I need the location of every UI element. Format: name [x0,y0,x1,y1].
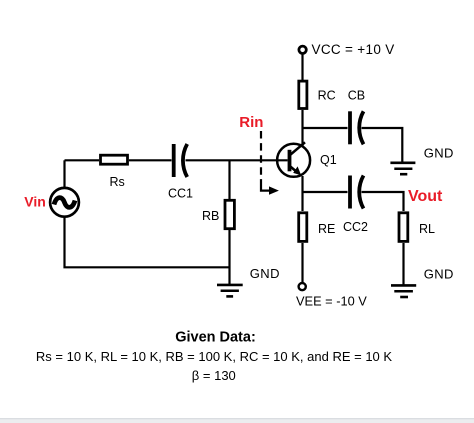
svg-text:RE: RE [318,222,335,236]
svg-text:VEE = -10 V: VEE = -10 V [296,293,367,308]
svg-text:CC2: CC2 [343,220,368,234]
svg-text:Vout: Vout [408,188,443,205]
svg-text:Rs = 10 K, RL = 10 K, RB = 100: Rs = 10 K, RL = 10 K, RB = 100 K, RC = 1… [36,349,392,364]
svg-text:CC1: CC1 [168,187,193,201]
svg-text:β = 130: β = 130 [192,368,236,383]
svg-text:GND: GND [424,146,454,161]
svg-text:Q1: Q1 [320,153,337,167]
svg-text:Vin: Vin [24,193,46,209]
svg-text:RL: RL [419,222,435,236]
svg-text:Rin: Rin [239,114,263,131]
svg-text:VCC = +10 V: VCC = +10 V [312,42,395,57]
svg-text:GND: GND [424,267,454,282]
svg-text:CB: CB [348,89,365,103]
svg-text:Given Data:: Given Data: [175,330,256,346]
svg-text:Rs: Rs [110,175,125,189]
svg-text:RC: RC [318,89,336,103]
svg-text:RB: RB [202,209,219,223]
svg-text:GND: GND [250,266,280,281]
